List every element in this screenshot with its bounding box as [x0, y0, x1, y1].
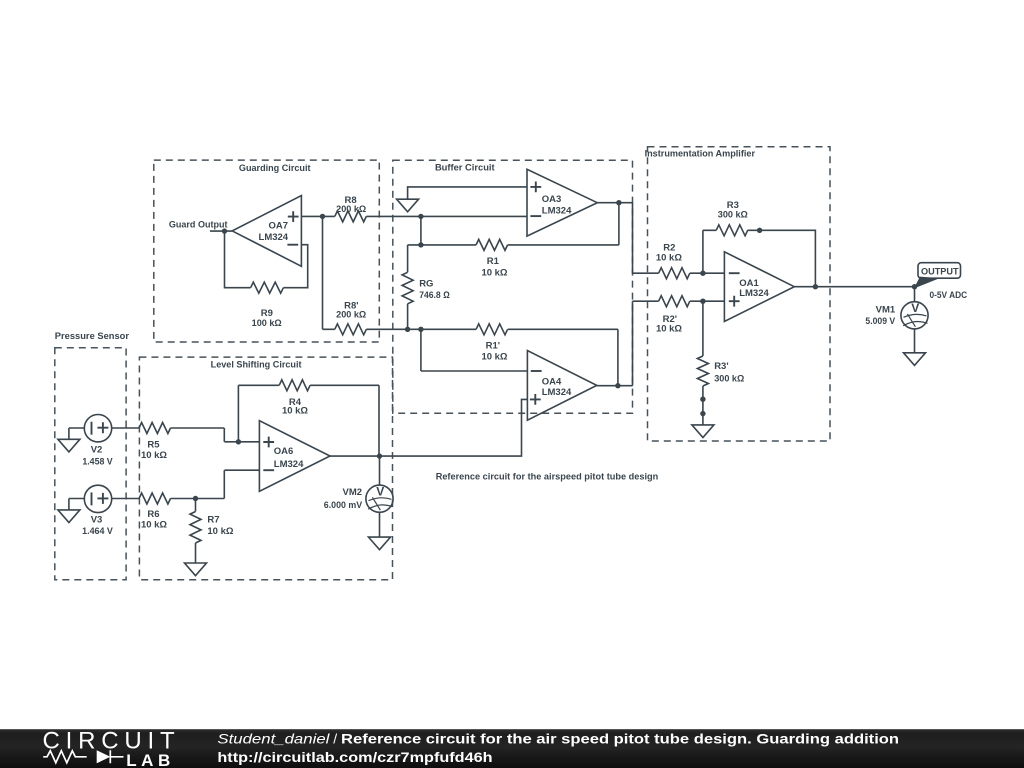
svg-text:OA3: OA3 [542, 194, 562, 205]
svg-text:10 kΩ: 10 kΩ [282, 406, 308, 417]
svg-text:Instrumentation Amplifier: Instrumentation Amplifier [645, 148, 756, 159]
svg-text:LM324: LM324 [739, 288, 769, 299]
svg-text:300 kΩ: 300 kΩ [714, 373, 744, 384]
svg-text:VM2: VM2 [343, 487, 363, 498]
svg-text:0-5V ADC: 0-5V ADC [930, 290, 968, 301]
svg-text:OUTPUT: OUTPUT [921, 266, 959, 277]
svg-text:1.458 V: 1.458 V [82, 457, 113, 468]
svg-text:1.464 V: 1.464 V [82, 526, 113, 537]
svg-text:R1': R1' [486, 341, 500, 352]
svg-text:10 kΩ: 10 kΩ [141, 520, 167, 531]
svg-text:Reference circuit for the airs: Reference circuit for the airspeed pitot… [436, 471, 659, 482]
svg-text:V3: V3 [91, 514, 103, 525]
svg-text:LM324: LM324 [259, 232, 289, 243]
svg-text:R1: R1 [487, 256, 500, 267]
svg-text:LM324: LM324 [274, 459, 304, 470]
svg-text:Buffer Circuit: Buffer Circuit [435, 162, 496, 173]
svg-text:LM324: LM324 [542, 206, 572, 217]
svg-text:10 kΩ: 10 kΩ [481, 267, 507, 278]
svg-text:Pressure Sensor: Pressure Sensor [55, 331, 129, 342]
svg-text:R5: R5 [147, 439, 160, 450]
svg-text:VM1: VM1 [876, 304, 896, 315]
svg-text:Student_daniel / Reference cir: Student_daniel / Reference circuit for t… [217, 731, 899, 747]
svg-text:Level Shifting Circuit: Level Shifting Circuit [211, 359, 303, 370]
svg-text:10 kΩ: 10 kΩ [481, 352, 507, 363]
svg-text:RG: RG [419, 279, 433, 290]
svg-text:746.8 Ω: 746.8 Ω [419, 290, 450, 301]
svg-text:10 kΩ: 10 kΩ [207, 526, 233, 537]
svg-text:6.000 mV: 6.000 mV [324, 500, 363, 511]
svg-text:5.009 V: 5.009 V [865, 316, 895, 327]
svg-text:Guard Output: Guard Output [169, 219, 228, 230]
svg-text:300 kΩ: 300 kΩ [718, 210, 748, 221]
svg-text:OA6: OA6 [274, 446, 294, 457]
svg-text:10 kΩ: 10 kΩ [141, 450, 167, 461]
svg-text:100 kΩ: 100 kΩ [252, 318, 282, 329]
svg-text:LM324: LM324 [542, 387, 572, 398]
svg-text:R7: R7 [207, 514, 219, 525]
svg-text:Guarding Circuit: Guarding Circuit [239, 163, 311, 174]
svg-text:V: V [911, 301, 919, 315]
svg-text:R3': R3' [714, 361, 728, 372]
svg-text:http://circuitlab.com/czr7mpfu: http://circuitlab.com/czr7mpfufd46h [217, 749, 492, 765]
svg-text:V: V [376, 485, 384, 499]
svg-text:OA7: OA7 [269, 220, 289, 231]
svg-text:200 kΩ: 200 kΩ [336, 309, 366, 320]
svg-text:10 kΩ: 10 kΩ [656, 253, 682, 264]
svg-text:10 kΩ: 10 kΩ [656, 324, 682, 335]
svg-text:200 kΩ: 200 kΩ [336, 204, 366, 215]
svg-text:V2: V2 [91, 444, 103, 455]
svg-text:R6: R6 [147, 509, 159, 520]
svg-text:LAB: LAB [126, 751, 174, 768]
